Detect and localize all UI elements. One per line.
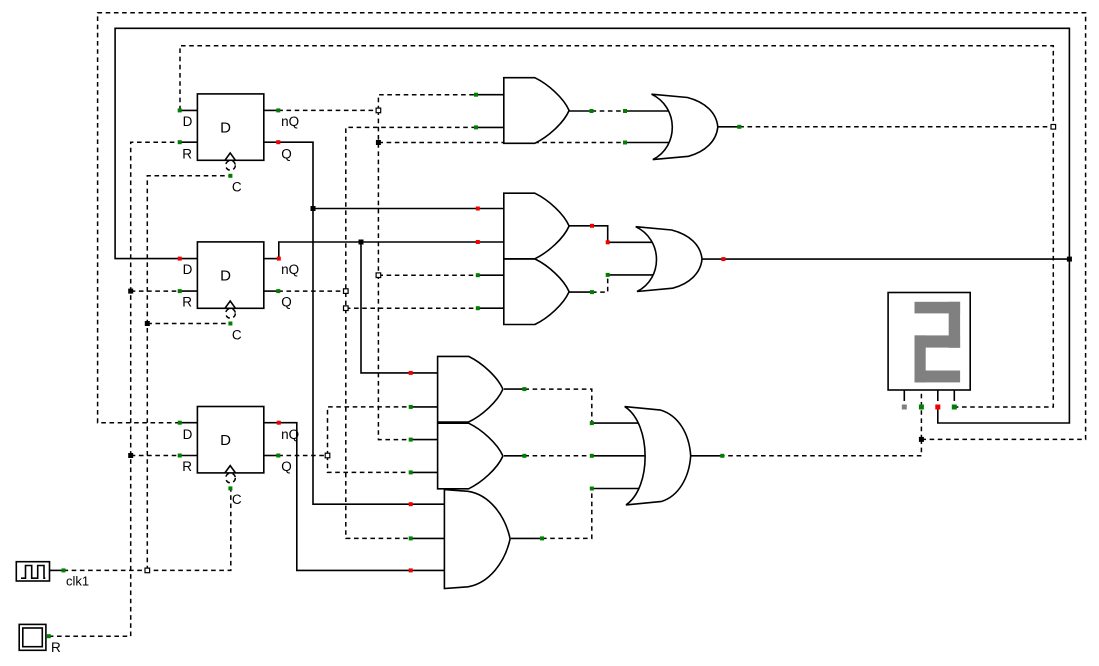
pin gate7.in3 red <box>409 568 413 572</box>
pin gate1.out green <box>590 109 594 113</box>
wire net CLK: clock source to FF3.C <box>64 488 231 570</box>
wire OR1 in1 stub <box>625 110 672 112</box>
wire net nQ2: FF2.nQ solid up and right to gate2 in2 <box>279 242 478 259</box>
wire gate3 output stub <box>570 291 593 293</box>
pin gate2.in2 red <box>476 240 480 244</box>
wire net D1: FF1.D to top dashed rail to 7seg pin4 <box>180 46 1053 407</box>
pin FF2.nQ red <box>277 257 281 261</box>
pin FF3.C green <box>228 486 232 490</box>
junction open nQ1 <box>376 108 381 113</box>
wire OR1 in2 stub <box>625 142 672 144</box>
reset button R <box>19 624 61 655</box>
pin OR2.in2 green <box>606 273 610 277</box>
pin gate1.in1 green <box>474 93 478 97</box>
wire gate7 output stub <box>511 537 542 539</box>
junction open Q3 <box>325 453 330 458</box>
and-gate G3 <box>504 259 569 325</box>
segment g middle <box>915 335 961 347</box>
svg-text:nQ: nQ <box>281 427 299 442</box>
wire gate2 output to OR2 in1 <box>570 226 656 243</box>
pin FF1.D green <box>178 108 182 112</box>
svg-text:D: D <box>220 120 231 137</box>
pin FF1.Q red <box>276 140 280 144</box>
wire gate7 in1 stub <box>411 503 445 505</box>
wire OR2 in2 stub <box>608 274 655 276</box>
junction open Q2/gate3in2 <box>344 306 349 311</box>
and-gate G6 <box>438 423 503 489</box>
pin gate3.in2 green <box>476 306 480 310</box>
pin FF3.R green <box>178 454 182 458</box>
wire OR1 out dashed to right rail <box>739 126 1053 128</box>
or-gate OR3 3-input <box>625 407 691 505</box>
or-gate OR1 <box>652 94 718 159</box>
pin FF2.Q green <box>276 289 280 293</box>
svg-text:R: R <box>182 459 192 474</box>
pin 7seg.3 red <box>935 405 940 410</box>
pin gate6.in1 green <box>409 438 413 442</box>
junction D2/OR2out <box>1067 257 1072 262</box>
pin 7seg.4 green <box>952 405 957 410</box>
svg-text:D: D <box>220 432 231 449</box>
svg-text:D: D <box>183 427 193 442</box>
wire net nQ1 branch to gate3 in1 <box>378 274 477 276</box>
junction open nQ1/gate3 <box>376 273 381 278</box>
pin gate6.out green <box>522 454 526 458</box>
pin FF1.nQ green <box>276 108 280 112</box>
flip-flop FF2 <box>180 242 299 342</box>
wire net nQ1 vertical down to gate6 in1 <box>378 110 410 439</box>
wire gate5 out dashed to OR3 in1 <box>524 389 591 423</box>
pin OR2.in1 red <box>606 240 610 244</box>
pin gate2.in1 red <box>476 207 480 211</box>
junction open Q2 <box>344 289 349 294</box>
svg-text:D: D <box>183 262 193 277</box>
wire net nQ2 branch down to gate5 in1 <box>361 242 411 373</box>
junction solid Q1/gate2 <box>311 206 316 211</box>
segment b top-right <box>949 302 960 348</box>
7-segment display U1 <box>888 293 970 402</box>
junction R/FF2 <box>128 289 133 294</box>
pin clk1.out green <box>62 568 66 572</box>
pin OR1.out green <box>737 125 741 129</box>
wire net R branch to FF3.R <box>131 455 180 457</box>
segment a top <box>915 302 961 314</box>
wire gate3 in2 stub <box>478 307 503 309</box>
wire gate7 out dashed to OR3 in3 <box>542 489 592 539</box>
pin 7seg.1 gray <box>902 405 907 410</box>
clock source clk1 <box>16 562 89 589</box>
wire gate3 out dashed corner <box>592 275 608 292</box>
wire net D3: FF3.D to outer dashed rail to junction near 7seg <box>98 13 1086 440</box>
wire gate5 in1 stub <box>411 372 438 374</box>
junction nQ1/OR1in2 <box>376 140 381 145</box>
and-gate G1 <box>504 78 569 144</box>
svg-text:Q: Q <box>281 459 292 474</box>
wire gate7 in2 stub <box>411 537 445 539</box>
wire net nQ3: FF3.nQ solid down to gate7 in3 <box>279 423 411 571</box>
wire gate6 output stub <box>504 455 524 457</box>
svg-text:clk1: clk1 <box>66 574 89 589</box>
wire net CLK branch: rail up to FF1.C <box>147 176 230 571</box>
pin gate1.in2 green <box>474 125 478 129</box>
svg-text:Q: Q <box>281 294 292 309</box>
pin R.out green <box>47 634 51 638</box>
wire OR3 in1 stub <box>592 422 645 424</box>
flip-flop FF1 <box>180 94 299 194</box>
wire net D3 branch: junction up to 7seg pin2 <box>920 391 922 440</box>
wire gate6 in1 stub <box>411 439 438 441</box>
svg-text:R: R <box>182 294 192 309</box>
and-gate G2 <box>504 193 569 259</box>
and-gate G7 3-input <box>444 490 510 589</box>
wire gate5 output stub <box>504 388 524 390</box>
pin gate7.in1 red <box>409 502 413 506</box>
wire net D2: solid loop OR2 out / FF2.D / 7seg pin3 <box>115 28 1069 423</box>
pin gate5.out green <box>522 387 526 391</box>
pin FF1.R green <box>178 140 182 144</box>
junction solid nQ2/gate5 <box>359 240 364 245</box>
svg-text:D: D <box>220 268 231 285</box>
wire gate7 in3 stub <box>411 569 445 571</box>
pin 7seg.2 green <box>919 405 924 410</box>
flip-flop FF3 <box>180 407 299 507</box>
junction open D1/OR1out <box>1051 125 1056 130</box>
pin gate6.in2 green <box>409 470 413 474</box>
or-gate OR2 <box>636 227 702 292</box>
junction CLK/FF2 <box>145 321 150 326</box>
pin gate5.in2 green <box>409 405 413 409</box>
wire net Q3: FF3.Q dashed to junction <box>278 455 327 457</box>
wire gate6 out dashed to OR3 in2 <box>524 455 591 457</box>
svg-text:Q: Q <box>281 146 292 161</box>
pin FF2.R green <box>178 289 182 293</box>
wire gate6 in2 stub <box>411 471 438 473</box>
wire gate2 in2 stub <box>478 241 503 243</box>
svg-text:nQ: nQ <box>281 262 299 277</box>
wire net R branch to FF2.R <box>131 290 180 292</box>
pin FF2.C green <box>228 322 232 326</box>
wire net Q2 branch to gate3 in2 <box>346 307 478 309</box>
pin FF3.nQ red <box>277 421 281 425</box>
svg-text:C: C <box>232 327 242 342</box>
pin FF1.C green <box>228 174 232 178</box>
junction R/FF3 <box>128 453 133 458</box>
pin OR3.in2 green <box>590 454 594 458</box>
pin OR3.in1 green <box>590 421 594 425</box>
wire net Q2 vertical rail with top to gate1 in2 <box>346 127 476 538</box>
wire net nQ1 branch up to gate1 in1 <box>378 95 476 111</box>
wire gate1 output stub <box>570 110 592 112</box>
wire gate5 in2 stub <box>411 406 438 408</box>
wire gate1 in2 stub <box>476 126 503 128</box>
wire OR3 in3 stub <box>592 488 645 490</box>
junction D3/7seg <box>919 437 924 442</box>
pin FF2.D red <box>178 257 182 261</box>
wire gate1 out to OR1 in1 dashed <box>592 110 626 112</box>
wire net Q1 branch to gate2 in1 <box>313 208 478 210</box>
wire net CLK branch to FF2.C <box>147 323 230 325</box>
pin OR2.out red <box>721 257 725 261</box>
pin OR3.in3 green <box>590 487 594 491</box>
pin gate3.out green <box>590 290 594 294</box>
wire gate1 in1 stub <box>476 94 503 96</box>
pin FF3.Q green <box>276 454 280 458</box>
svg-text:nQ: nQ <box>281 114 299 129</box>
junction open CLK <box>145 568 150 573</box>
7seg pin stubs <box>903 390 905 401</box>
pin OR3.out green <box>720 454 724 458</box>
wire net nQ1 branch to OR1 in2 <box>378 142 625 144</box>
svg-text:C: C <box>232 492 242 507</box>
wire OR3 output stub <box>691 455 723 457</box>
svg-text:R: R <box>182 146 192 161</box>
wire OR1 output stub <box>718 126 740 128</box>
svg-text:C: C <box>232 179 242 194</box>
pin gate3.in1 green <box>476 273 480 277</box>
pin OR1.in1 green <box>623 109 627 113</box>
pin FF3.D green <box>178 421 182 425</box>
pin gate7.in2 green <box>409 536 413 540</box>
pin OR1.in2 green <box>623 141 627 145</box>
svg-text:R: R <box>51 640 61 655</box>
segment e bottom-left <box>915 335 926 382</box>
svg-text:D: D <box>183 114 193 129</box>
pin gate2.out red <box>590 224 594 228</box>
pin gate5.in1 red <box>409 371 413 375</box>
wire net nQ1: FF1.nQ dashed to junction <box>278 109 378 111</box>
and-gate G5 <box>438 356 503 422</box>
segment d bottom <box>915 371 961 383</box>
wire net D3 branch: junction down-left to OR3 output <box>722 439 921 455</box>
wire gate3 in1 stub <box>478 274 503 276</box>
wire net Q2: FF2.Q dashed to rail junction <box>278 290 346 292</box>
wire net D2 branch: OR2 output to solid rail <box>700 258 1070 260</box>
wire gate2 in1 stub <box>478 208 503 210</box>
wire net Q1: FF1.Q solid down to gate7 in1 <box>278 142 410 504</box>
wire net Q3 branch down to gate6 in2 <box>328 456 411 473</box>
pin gate7.out green <box>540 536 544 540</box>
wire OR3 in2 stub <box>592 455 648 457</box>
wire net R: reset button up the left rail to FF1.R <box>49 142 180 636</box>
wire net Q3 branch up to gate5 in2 <box>328 407 411 456</box>
